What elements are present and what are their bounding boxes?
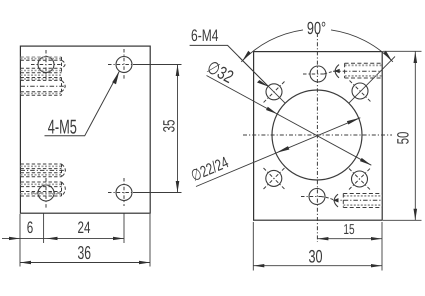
90deg extension line through hole top-right xyxy=(349,57,395,104)
hole top-left (M4) xyxy=(266,84,282,100)
svg-text:24: 24 xyxy=(78,218,91,237)
centerline diag1 hole bottom-right xyxy=(349,169,370,190)
svg-text:90°: 90° xyxy=(307,18,326,38)
arrow 35 bottom xyxy=(176,181,180,193)
vertical centerline right view xyxy=(316,33,318,242)
centerline horizontal hole top-center xyxy=(303,73,324,75)
arrowhead Ø22/24 left on circle xyxy=(276,146,289,153)
drill cone hole 4 xyxy=(62,182,66,196)
centerline diag1 hole bottom-left xyxy=(264,168,285,189)
centerline horizontal hole TL xyxy=(31,64,61,66)
centerline horizontal hole TR xyxy=(108,64,140,66)
axis centerline bottom-right side hole xyxy=(321,197,334,201)
extension line x=382 bottom xyxy=(381,222,383,271)
hole top-center (M4) xyxy=(310,66,326,82)
arrow at 124 pointing right xyxy=(113,237,124,240)
90deg extension line through hole top-left xyxy=(239,57,286,104)
arrowhead Ø32 far end xyxy=(360,158,371,165)
centerline diag hole top-right xyxy=(350,81,371,102)
extension line x=150 bottom xyxy=(149,214,151,267)
svg-text:30: 30 xyxy=(308,247,322,267)
arrow 36 left xyxy=(20,261,31,264)
leader 6-M4 xyxy=(190,45,269,86)
centerline vertical hole BR xyxy=(123,178,125,206)
extension line from hole TR xyxy=(133,64,182,66)
hole BR front circle (M5) xyxy=(116,185,132,201)
extension line from hole BR xyxy=(133,192,182,194)
hole BL front circle (M5) xyxy=(38,185,54,201)
arrowhead at tip top-right side hole xyxy=(334,69,340,73)
arrow at 20 pointing right xyxy=(9,237,20,240)
svg-text:15: 15 xyxy=(343,222,354,238)
extension line bottom edge right xyxy=(383,219,422,221)
side tapped hole 4 (bottom-left lower, hidden lines) xyxy=(21,182,62,196)
arrowhead 6-M4 xyxy=(257,80,269,87)
arrow 50 bottom xyxy=(414,209,418,221)
90deg arc left part xyxy=(241,30,303,62)
side tapped hole top-right (hidden lines) xyxy=(345,63,382,78)
horizontal centerline right view xyxy=(243,134,392,136)
arrowhead 4-M5 leader xyxy=(112,71,119,84)
arrow 50 top xyxy=(414,52,418,64)
centerline diag hole top-left xyxy=(264,82,285,103)
svg-text:4-M5: 4-M5 xyxy=(48,117,77,139)
plate outline (right view) xyxy=(254,52,383,221)
svg-text:36: 36 xyxy=(78,242,92,263)
side tapped hole 2 (below hole1, hidden lines) xyxy=(21,75,62,95)
arrow 15 left xyxy=(317,237,328,240)
arrow 30 right xyxy=(371,264,382,267)
drill cone hole 1 xyxy=(62,60,66,68)
svg-text:∅32: ∅32 xyxy=(204,57,237,87)
extension line top edge right xyxy=(383,50,422,52)
centerline diag2 hole bottom-left xyxy=(264,168,285,189)
dimension line 30 xyxy=(253,265,382,267)
centerline vertical hole TR xyxy=(123,49,125,80)
arrow 30 left xyxy=(253,264,264,267)
svg-text:6: 6 xyxy=(27,218,33,237)
centerline horizontal hole BR xyxy=(108,192,140,194)
drill cone hole 3 xyxy=(62,164,66,177)
arrowhead arc right xyxy=(383,51,392,61)
dimension line 15 xyxy=(317,238,382,240)
plate outline (left view) xyxy=(20,46,150,213)
centerline horizontal hole bottom-center xyxy=(301,196,321,198)
hole TL front circle (M5) xyxy=(38,57,54,73)
arrow at 46.5 pointing left xyxy=(47,237,58,240)
centerline horizontal hole BL xyxy=(31,192,61,194)
svg-text:50: 50 xyxy=(395,132,413,145)
90deg arc right part xyxy=(331,30,393,62)
arrowhead arc left xyxy=(242,51,251,61)
svg-text:35: 35 xyxy=(161,120,179,133)
extension line x=253.3 bottom xyxy=(252,222,254,271)
hole bottom-left (M4) xyxy=(266,170,282,186)
centerline vertical hole TL xyxy=(45,50,47,79)
side tapped hole bottom-right (hidden lines) xyxy=(343,194,382,208)
dimension line 35 xyxy=(177,65,179,193)
centerline diag2 hole bottom-right xyxy=(349,169,370,190)
hole 3 axis centerline xyxy=(21,169,67,171)
hole top-right (M4) xyxy=(352,83,368,99)
centerline vertical hole BL xyxy=(45,178,47,208)
arrowhead Ø22/24 right on circle xyxy=(347,118,360,125)
extension line x=45 bottom xyxy=(43,214,45,244)
axis centerline top-right side hole xyxy=(324,71,333,74)
extension line x=124 bottom xyxy=(123,214,125,244)
arrowhead Ø32 on circle xyxy=(266,107,278,114)
arrow 15 right xyxy=(371,237,382,240)
arrowhead at tip bottom-right side hole xyxy=(333,198,339,202)
drill tip arc bottom-right side hole xyxy=(334,194,338,207)
leader line Ø22/24 (through center) xyxy=(196,118,360,187)
side tapped hole 1 (top-left, hidden lines) xyxy=(21,57,62,73)
hole bottom-center (M4) xyxy=(309,189,325,205)
extension line x=20 bottom xyxy=(19,214,21,267)
side tapped hole 3 (bottom-left upper, hidden lines) xyxy=(21,164,62,177)
arrow 36 right xyxy=(139,261,150,264)
drill cone hole 2 xyxy=(62,80,66,91)
dimension line 6 / 24 xyxy=(2,237,124,239)
drill tip arc top-right side hole xyxy=(335,65,339,78)
leader 4-M5 xyxy=(45,71,120,136)
hole 2 axis centerline xyxy=(21,85,67,87)
svg-text:6-M4: 6-M4 xyxy=(191,26,218,45)
big bore circle Ø32 xyxy=(272,90,362,180)
dimension line 50 xyxy=(414,52,416,221)
arrow 35 top xyxy=(176,65,180,77)
hole bottom-right (M4) xyxy=(352,171,368,187)
leader line Ø32 (through center) xyxy=(207,76,372,166)
hole TR front circle (M5) xyxy=(116,57,132,73)
dimension line 36 xyxy=(20,262,150,264)
